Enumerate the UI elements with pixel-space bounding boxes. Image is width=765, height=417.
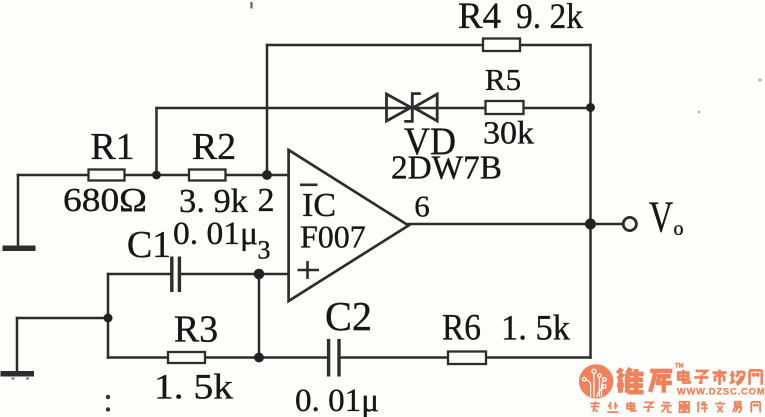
node: inverting input pin 2 junction: [262, 170, 272, 180]
svg-text:0. 01μ: 0. 01μ: [295, 383, 379, 417]
svg-text:6: 6: [414, 189, 430, 224]
wire: bottom line left of C2: [108, 356, 327, 359]
svg-text:2: 2: [258, 182, 275, 219]
wire: left ground drop: [17, 175, 20, 247]
wire: riser from pin2 node to R4 top line: [266, 45, 269, 175]
node: R3/C2 junction: [254, 353, 264, 363]
ground G2 (lower left): [1, 371, 35, 377]
wire: right rail: [589, 45, 592, 358]
capacitor C1: [172, 257, 180, 293]
svg-text:R3: R3: [174, 309, 218, 351]
svg-text:0. 01μ: 0. 01μ: [173, 216, 258, 252]
wire: VD / R5 feedback line: [157, 107, 591, 110]
svg-text:1. 5k: 1. 5k: [154, 367, 233, 407]
wire: riser from R1/R2 node up to VD/R5 feedback line: [155, 108, 158, 175]
wire: ground2 drop: [16, 318, 19, 372]
svg-text:3: 3: [258, 236, 271, 265]
resistor R2: [189, 170, 226, 181]
svg-text:TM: TM: [675, 364, 684, 370]
capacitor C2: [329, 339, 339, 377]
resistor R4: [483, 39, 520, 52]
svg-text:R2: R2: [192, 126, 236, 168]
node: non-inverting pin 3 junction: [254, 269, 265, 280]
svg-text:C1: C1: [127, 224, 171, 266]
node: output junction on right rail: [585, 219, 596, 230]
svg-text:2DW7B: 2DW7B: [391, 150, 502, 187]
wire: C1 line left segment: [108, 273, 170, 276]
wire: op-amp output to terminal: [409, 223, 624, 226]
node: R5 line to right rail: [586, 103, 595, 112]
svg-text:R1: R1: [90, 126, 134, 168]
svg-text:F007: F007: [300, 219, 366, 255]
svg-text:V: V: [649, 193, 673, 242]
output terminal Vo: [623, 217, 636, 230]
svg-text:30k: 30k: [483, 116, 535, 152]
resistor R3: [168, 352, 205, 363]
resistor R1: [89, 170, 125, 181]
svg-text:1. 5k: 1. 5k: [501, 308, 570, 348]
svg-text:9. 2k: 9. 2k: [516, 0, 583, 36]
watermark: [579, 364, 765, 413]
wire: left drop from C1 line to bottom line: [107, 274, 110, 358]
svg-text:R5: R5: [485, 62, 521, 97]
wire: bottom line right of C2: [340, 356, 591, 359]
node: R1/R2 junction: [152, 171, 161, 180]
wire: ground2 branch: [17, 317, 108, 320]
node: ground2 branch junction: [104, 314, 113, 323]
diode VD (back-to-back zener pair): [387, 94, 438, 122]
svg-text:o: o: [674, 218, 684, 240]
resistor R5: [486, 101, 524, 114]
op-amp U1 IC F007 triangle: [289, 150, 409, 301]
svg-text:C2: C2: [325, 293, 372, 339]
wire: C1 to non-inverting input pin 3: [181, 273, 289, 276]
svg-text:3. 9k: 3. 9k: [179, 183, 248, 220]
resistor R6: [448, 352, 486, 365]
svg-text:680Ω: 680Ω: [63, 182, 147, 219]
op-amp non-inverting input marker (plus): [298, 261, 320, 279]
svg-text:R4: R4: [458, 0, 501, 37]
wire: drop from pin3 node to bottom line: [258, 274, 261, 358]
wire: input line (ground to op-amp inverting input, through R1 and R2): [18, 174, 289, 177]
ground G1 (top left): [3, 246, 36, 252]
svg-text:R6: R6: [442, 308, 481, 349]
op-amp inverting input marker (minus): [300, 184, 318, 187]
svg-text:WWW.DZSC.COM: WWW.DZSC.COM: [677, 387, 765, 397]
wire: R4 top feedback line: [267, 44, 591, 47]
